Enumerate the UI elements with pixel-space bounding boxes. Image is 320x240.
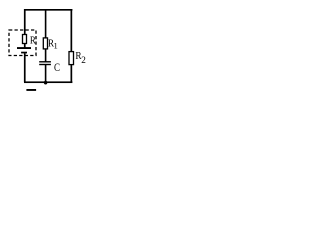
svg-text:R: R bbox=[30, 35, 36, 47]
svg-text:C: C bbox=[54, 62, 60, 74]
svg-text:1: 1 bbox=[54, 41, 58, 51]
svg-text:2: 2 bbox=[81, 55, 86, 65]
